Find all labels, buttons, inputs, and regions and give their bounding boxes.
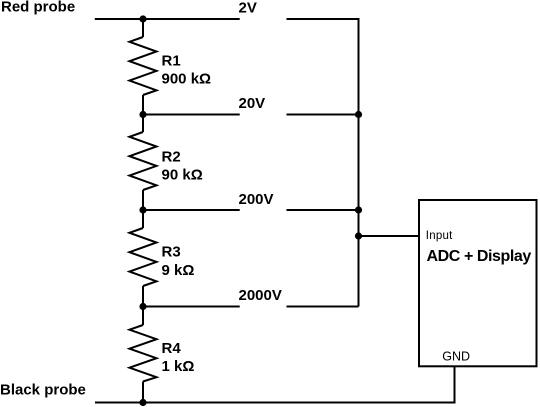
svg-text:R3: R3 — [162, 244, 181, 261]
wire 2000V left segment — [143, 306, 240, 308]
svg-text:200V: 200V — [239, 191, 274, 208]
wire 200V right segment — [287, 209, 359, 211]
svg-text:2000V: 2000V — [239, 287, 282, 304]
svg-text:Red probe: Red probe — [1, 0, 75, 15]
svg-text:Input: Input — [426, 230, 453, 242]
resistor R4 — [130, 325, 157, 382]
node dot black probe junction — [139, 399, 146, 406]
node dot top of resistor chain (2V tap) — [139, 15, 146, 22]
svg-text:90 kΩ: 90 kΩ — [162, 167, 203, 184]
wire R3 bottom lead — [142, 286, 144, 307]
wire R1 bottom lead — [142, 95, 144, 115]
wire bottom black probe — [95, 402, 456, 404]
wire 2000V right segment — [287, 306, 359, 308]
wire input to ADC box — [359, 235, 420, 237]
svg-text:ADC + Display: ADC + Display — [427, 248, 532, 265]
svg-text:Black probe: Black probe — [0, 381, 86, 398]
svg-text:R2: R2 — [162, 149, 181, 166]
svg-text:1 kΩ: 1 kΩ — [162, 358, 195, 375]
node dot 200V tap — [139, 206, 146, 213]
wire GND to black probe — [454, 366, 456, 404]
svg-text:R4: R4 — [162, 340, 182, 357]
resistor R3 — [130, 228, 157, 286]
svg-text:900 kΩ: 900 kΩ — [162, 71, 212, 88]
node dot 200V on bus — [355, 206, 362, 213]
wire R4 bottom lead — [142, 382, 144, 403]
node dot 20V on bus — [355, 111, 362, 118]
wire 20V right segment — [287, 114, 359, 116]
node dot 2000V tap — [139, 303, 146, 310]
svg-text:R1: R1 — [162, 53, 181, 70]
wire top 2V right segment — [287, 18, 360, 20]
svg-text:2V: 2V — [239, 0, 257, 16]
wire R1 top lead — [142, 19, 144, 37]
node dot 20V tap — [139, 111, 146, 118]
wire R2 top lead — [142, 115, 144, 133]
wire R3 top lead — [142, 210, 144, 228]
svg-text:GND: GND — [442, 350, 470, 364]
box U1 ADC + Display — [419, 200, 537, 366]
wire 200V left segment — [143, 209, 240, 211]
wire 20V left segment — [143, 114, 240, 116]
wire R4 top lead — [142, 307, 144, 326]
resistor R1 — [130, 37, 157, 95]
resistor R2 — [130, 132, 157, 190]
wire top 2V left segment — [95, 18, 240, 20]
node dot input tap on bus — [355, 232, 362, 239]
svg-text:9 kΩ: 9 kΩ — [162, 262, 195, 279]
svg-text:20V: 20V — [239, 95, 266, 112]
wire bus vertical right — [358, 19, 360, 307]
wire R2 bottom lead — [142, 190, 144, 210]
